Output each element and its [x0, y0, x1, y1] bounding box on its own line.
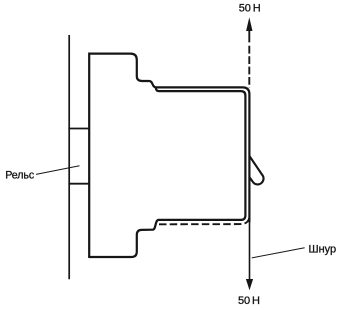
rail vertical line — [68, 35, 70, 279]
svg-text:Шнур: Шнур — [309, 244, 337, 256]
svg-text:50 Н: 50 Н — [239, 3, 261, 15]
label Rels pointer line — [36, 166, 80, 175]
cord hidden part: dashed vertical above bracket — [248, 46, 250, 88]
cord hidden part: dashed under bottom arm — [159, 216, 249, 224]
cord hook loop — [250, 156, 264, 184]
bracket inner outline — [89, 89, 245, 257]
cord lower visible segment — [249, 222, 251, 282]
label Shnur pointer line — [252, 248, 305, 258]
bottom force arrow 50 N — [246, 279, 253, 290]
top force arrow 50 N — [248, 30, 250, 43]
bracket outer outline — [89, 54, 249, 257]
rail lower joint line — [68, 183, 89, 185]
rail upper joint line — [68, 128, 89, 130]
svg-text:50 Н: 50 Н — [238, 295, 260, 307]
svg-text:Рельс: Рельс — [5, 170, 35, 182]
